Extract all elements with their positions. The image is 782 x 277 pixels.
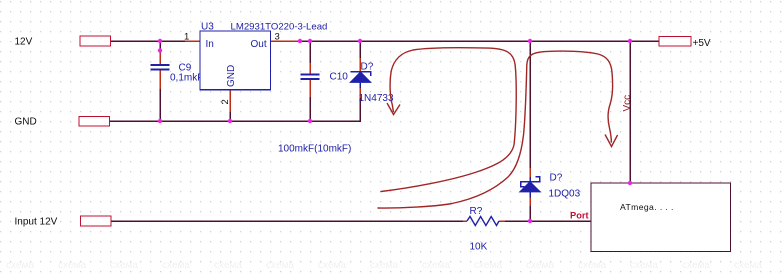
node: junction GND/pin2 [228,119,232,123]
pin 1 of U1 (pin stub) [185,40,200,42]
svg-text:12V: 12V [15,37,33,48]
pin: D1 anode lead [359,87,361,98]
node: junction 12V/C9 [158,39,162,43]
svg-text:2: 2 [220,99,231,104]
svg-text:сxема: сxема [630,260,658,271]
wire: U3 pin2 to GND rail [229,112,231,121]
node: junction input wire / D2 [528,219,532,223]
annotation stroke A (loop with arrow at 1N4733) [381,48,516,192]
pin: D1 cathode lead [359,58,361,71]
svg-text:сxема: сxема [682,260,710,271]
svg-text:0,1mkF: 0,1mkF [170,73,203,84]
wire: D2 anode to input wire [529,206,531,221]
svg-text:сxема: сxема [266,260,294,271]
svg-text:ATmega. . . .: ATmega. . . . [620,202,674,212]
wire: vertical to D2 from +5V rail [529,41,531,168]
svg-text:сxема: сxема [474,260,502,271]
capacitor C9 plates [151,65,170,70]
wire: C9 branch upper [159,41,161,51]
faint watermark band [6,260,762,271]
svg-text:1DQ03: 1DQ03 [549,189,581,200]
svg-text:In: In [206,39,214,50]
pin: C10 top lead [309,63,311,74]
svg-text:+5V: +5V [693,38,711,49]
node: junction pin3 wire [298,39,302,43]
svg-text:сxема: сxема [422,260,450,271]
node: junction C9 stub [158,48,162,52]
svg-text:GND: GND [226,65,237,87]
svg-text:GND: GND [15,117,37,128]
svg-text:3: 3 [275,32,280,43]
capacitor C10 plates [301,74,320,79]
port connector Input 12V [81,216,112,226]
op-amp U3 body LM2931 [200,31,271,90]
svg-text:100mkF(10mkF): 100mkF(10mkF) [278,144,351,155]
ATmega U2 body [591,183,731,252]
svg-text:C10: C10 [330,72,349,83]
node: junction Vcc branch top [628,39,632,43]
annotation arrowhead B [605,135,617,147]
diode D1 anode stub [359,83,361,89]
pin: C9 bottom lead [159,70,161,89]
port connector GND [79,117,110,127]
svg-text:сxема: сxема [6,260,34,271]
svg-text:сxема: сxема [110,260,138,271]
svg-text:сxема: сxема [578,260,606,271]
node: junction D2 branch top [528,39,532,43]
annotation arrowhead A [387,104,399,115]
wire: D1 zener branch upper [359,41,361,58]
svg-text:1N4733: 1N4733 [359,93,394,104]
svg-text:сxема: сxема [162,260,190,271]
wire: resistor to ATmega Port [505,220,591,222]
pin 2 of U1 lead down [229,90,231,113]
port connector 12V [80,36,111,46]
svg-text:Port: Port [570,211,589,221]
svg-text:10K: 10K [470,242,488,253]
svg-text:C9: C9 [179,63,192,74]
svg-text:Vcc: Vcc [622,95,633,112]
svg-text:U3: U3 [201,22,214,33]
diode D1 cathode bar with zener tick [351,72,371,76]
wire: Vcc net vertical to ATmega [629,41,631,183]
svg-text:D?: D? [361,62,374,73]
wire: C9 bottom to GND rail [159,89,161,121]
pin: C9 top lead [159,51,161,65]
wire: C10 bottom to GND rail [309,97,311,121]
diode D2 zener 1DQ03 triangle [520,182,541,192]
pin: C10 bottom lead [309,79,311,97]
diode D2 anode stub [529,192,531,198]
node: junction Vcc at ATmega [628,181,632,185]
diode D2 cathode bar with zener hooks [521,177,540,187]
svg-text:сxема: сxема [526,260,554,271]
svg-text:сxема: сxема [214,260,242,271]
pin 3 of U1 (pin stub) [271,40,301,42]
svg-text:сxема: сxема [370,260,398,271]
annotation stroke B (outer loop with arrow at Vcc) [378,51,613,208]
pin: D2 anode lead [529,197,531,206]
svg-text:Out: Out [251,39,267,50]
node: junction D1 top [358,39,362,43]
svg-text:D?: D? [550,173,563,184]
svg-text:сxема: сxема [734,260,762,271]
port connector +5V [659,37,691,47]
resistor R1 zigzag [467,217,499,226]
diode D1 zener 1N4733 triangle [350,72,371,83]
wire: GND rail [110,98,361,121]
svg-text:сxема: сxема [318,260,346,271]
wire: +5V rail from U3 pin3 to +5V port [300,40,659,42]
pin: D2 cathode lead [529,168,531,177]
node: junction C10 top [308,39,312,43]
node: junction GND/C10 [308,119,312,123]
svg-text:Input 12V: Input 12V [15,217,58,228]
pin: R1 right lead [499,220,505,222]
wire: 12V rail from 12V port to U3 pin1 [111,40,185,42]
pin: R1 left lead [463,220,467,222]
diode D2 top stub [529,177,531,182]
wire: C10 branch upper [309,41,311,63]
svg-text:1: 1 [184,32,189,43]
node: junction GND/C9 [158,119,162,123]
svg-text:сxема: сxема [58,260,86,271]
wire: Input 12V line to resistor [111,220,463,222]
svg-text:R?: R? [470,206,483,217]
